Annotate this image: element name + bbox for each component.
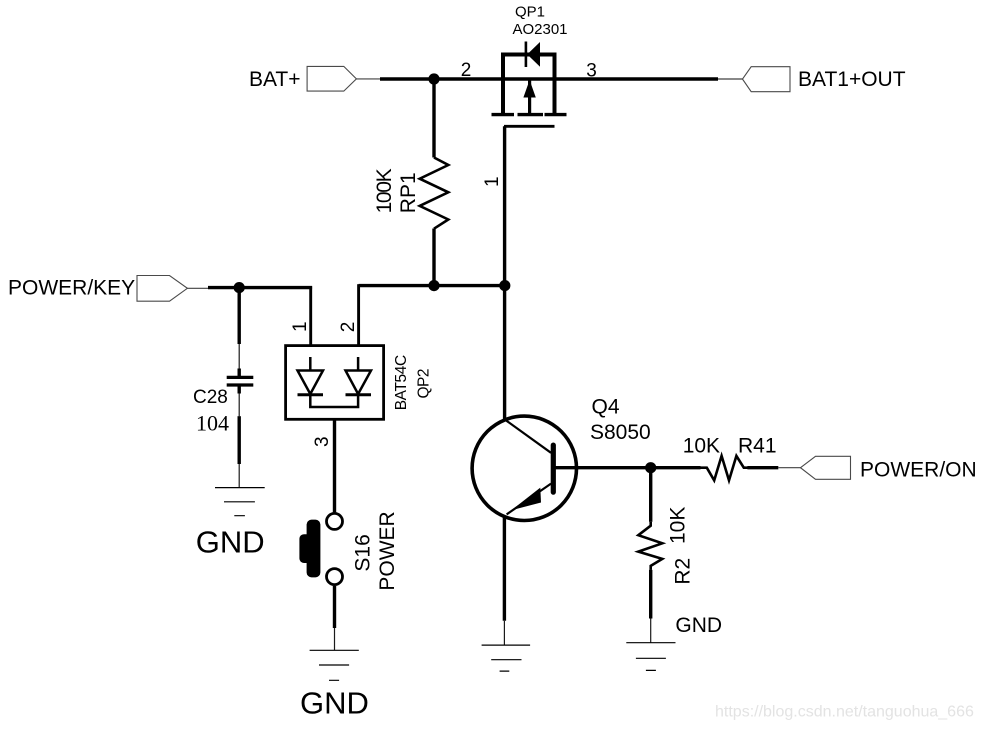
svg-text:2: 2 — [338, 322, 359, 333]
svg-text:QP2: QP2 — [415, 369, 432, 399]
svg-text:BAT+: BAT+ — [249, 68, 301, 91]
svg-text:R41: R41 — [738, 435, 777, 458]
svg-text:3: 3 — [586, 60, 597, 81]
svg-text:C28: C28 — [193, 387, 228, 408]
svg-text:POWER/KEY: POWER/KEY — [8, 277, 135, 300]
svg-text:AO2301: AO2301 — [512, 21, 567, 38]
svg-text:GND: GND — [196, 525, 265, 560]
svg-text:QP1: QP1 — [515, 4, 545, 21]
svg-text:1: 1 — [482, 176, 503, 187]
svg-text:RP1: RP1 — [397, 172, 420, 213]
svg-text:S8050: S8050 — [590, 421, 651, 444]
svg-text:BAT54C: BAT54C — [393, 355, 410, 411]
svg-text:1: 1 — [290, 321, 311, 332]
svg-text:3: 3 — [312, 436, 333, 447]
svg-text:S16: S16 — [351, 534, 374, 571]
svg-text:10K: 10K — [683, 435, 720, 458]
svg-text:GND: GND — [675, 614, 722, 637]
svg-text:GND: GND — [300, 686, 369, 721]
svg-text:104: 104 — [196, 411, 229, 436]
svg-text:POWER/ON: POWER/ON — [860, 458, 977, 481]
svg-text:POWER: POWER — [376, 511, 399, 590]
svg-text:https://blog.csdn.net/tanguohu: https://blog.csdn.net/tanguohua_666 — [715, 704, 974, 721]
svg-text:100K: 100K — [373, 168, 396, 213]
svg-text:2: 2 — [461, 60, 472, 81]
svg-text:Q4: Q4 — [592, 396, 620, 419]
svg-text:R2: R2 — [671, 558, 694, 585]
svg-text:BAT1+OUT: BAT1+OUT — [798, 68, 906, 91]
svg-text:10K: 10K — [667, 507, 690, 544]
